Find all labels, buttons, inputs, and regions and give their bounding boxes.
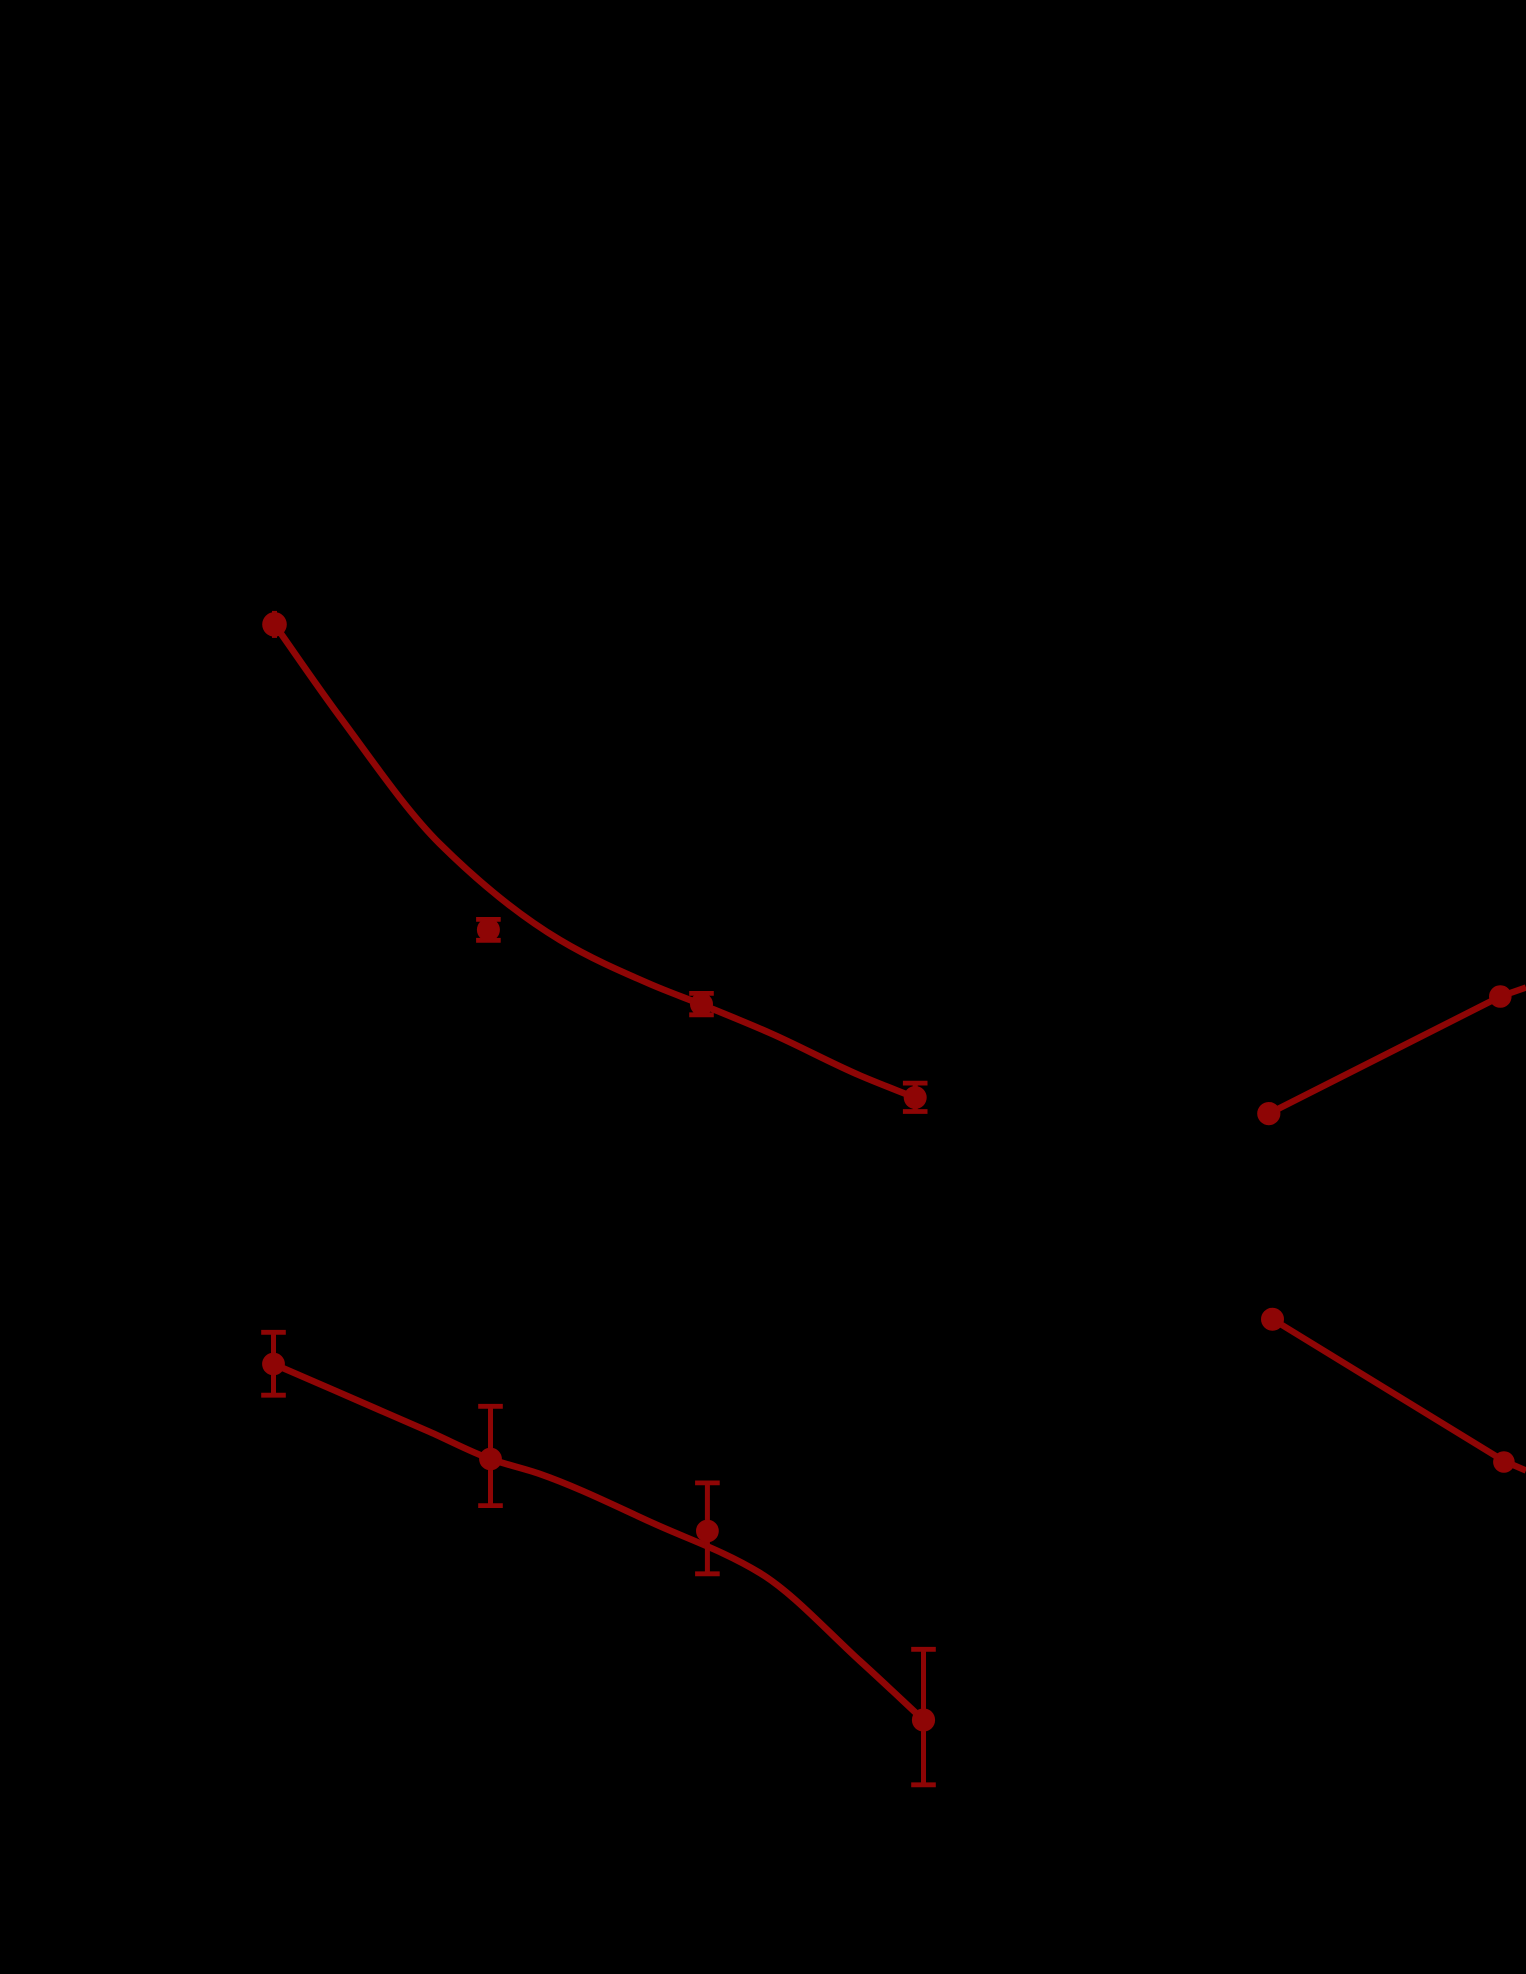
data point T1 marker xyxy=(262,612,287,637)
data point B4 error bar xyxy=(911,1649,936,1785)
data point T2 marker xyxy=(477,918,500,941)
data point B2 marker xyxy=(479,1448,502,1471)
data point B1 error bar xyxy=(261,1332,286,1395)
data point B3 marker xyxy=(696,1520,719,1543)
data point B3 error bar xyxy=(695,1483,720,1574)
right falling line marker left xyxy=(1261,1308,1284,1331)
right panel rising line xyxy=(1269,988,1526,1114)
data point T1 error bar xyxy=(272,611,277,638)
data point T3 error bar xyxy=(689,993,714,1014)
data point T4 error bar xyxy=(903,1083,928,1111)
fit curve 2 (lower-left decaying curve) xyxy=(274,1364,924,1720)
data point T4 marker xyxy=(904,1086,927,1109)
data point B4 marker xyxy=(912,1708,935,1731)
right panel falling line xyxy=(1273,1319,1526,1470)
right rising line marker left xyxy=(1257,1102,1280,1125)
data point B2 error bar xyxy=(478,1406,503,1505)
right rising line marker right xyxy=(1489,985,1512,1008)
fit curve 1 (upper-left decaying curve) xyxy=(275,624,916,1097)
data point B1 marker xyxy=(262,1353,285,1376)
data point T3 marker xyxy=(690,993,713,1016)
right falling line marker right xyxy=(1493,1451,1515,1473)
data point T2 error bar xyxy=(476,919,501,940)
